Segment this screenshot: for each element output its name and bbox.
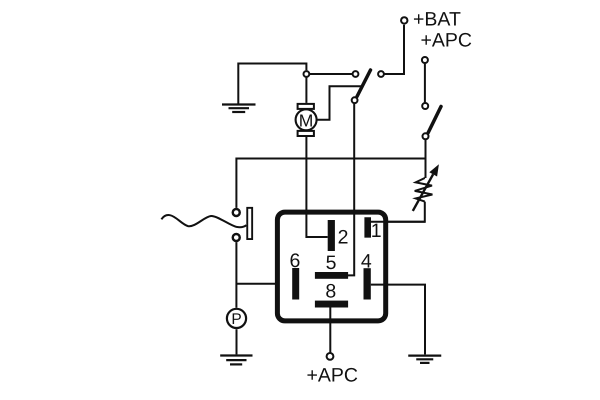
- svg-text:6: 6: [289, 250, 300, 272]
- relay pin 6: [292, 268, 299, 300]
- svg-text:5: 5: [326, 252, 337, 274]
- wire to pin 6: [236, 283, 292, 285]
- wire: [238, 64, 306, 104]
- ground: [408, 356, 441, 363]
- svg-text:+APC: +APC: [307, 365, 358, 387]
- wire: [235, 242, 237, 308]
- relay U1 body: [277, 212, 385, 321]
- node sensor contact upper: [233, 209, 240, 216]
- wire: [317, 86, 363, 120]
- svg-text:8: 8: [325, 281, 336, 303]
- node switch contact left: [353, 71, 359, 77]
- rheostat R1 zigzag: [415, 178, 433, 202]
- wire: [371, 202, 425, 222]
- node switch2 top contact: [422, 103, 428, 109]
- node junction: [304, 71, 310, 77]
- switch SW1 lever: [357, 70, 371, 97]
- node switch2 bottom contact: [423, 133, 429, 139]
- node switch contact right: [378, 71, 384, 77]
- wire re-draw into relay pin5: [348, 212, 354, 275]
- wire: [424, 64, 426, 103]
- svg-text:+BAT: +BAT: [413, 9, 461, 31]
- wire: [425, 140, 427, 178]
- node +APC bottom terminal: [327, 353, 334, 360]
- wire: [305, 78, 307, 103]
- wire: [306, 137, 327, 237]
- sensor plate: [247, 208, 252, 239]
- svg-text:M: M: [299, 111, 314, 131]
- ground: [222, 105, 256, 113]
- motor M1 top terminal: [298, 104, 314, 109]
- wire pin8 to +APC: [329, 308, 331, 353]
- wire: [348, 104, 354, 276]
- node +APC terminal: [422, 57, 428, 63]
- motor M1: [296, 109, 317, 130]
- wire re-draw into relay pin2: [306, 212, 327, 237]
- ground: [220, 356, 252, 365]
- wire: [385, 25, 405, 74]
- wire pin4 to ground: [371, 285, 425, 355]
- relay pin 4: [364, 268, 371, 299]
- rheostat R1 arrow: [413, 164, 439, 211]
- relay pin 8: [315, 301, 348, 308]
- wire: [310, 73, 352, 75]
- flexible lead squiggle: [161, 215, 246, 227]
- motor M1 bottom terminal: [298, 131, 314, 136]
- wire pin1 to rheostat: [371, 221, 425, 223]
- switch SW2 lever: [428, 107, 441, 134]
- pressure switch P1: [227, 309, 246, 328]
- node switch common: [352, 97, 358, 103]
- node sensor contact lower: [233, 234, 240, 241]
- wire: [236, 329, 238, 354]
- relay pin 1: [364, 217, 371, 237]
- node +BAT terminal: [401, 17, 407, 23]
- svg-text:2: 2: [338, 226, 349, 248]
- svg-text:1: 1: [371, 220, 382, 242]
- wire long horizontal: [236, 159, 425, 208]
- svg-text:P: P: [231, 311, 241, 328]
- relay pin 2: [328, 220, 335, 251]
- svg-text:+APC: +APC: [421, 30, 472, 52]
- relay pin 5: [315, 272, 348, 279]
- svg-text:4: 4: [361, 251, 372, 273]
